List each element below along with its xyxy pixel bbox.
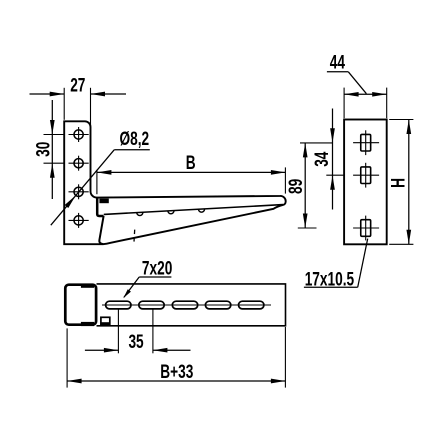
svg-text:17x10.5: 17x10.5 [305,268,354,290]
svg-text:B: B [186,152,196,174]
svg-text:Ø8,2: Ø8,2 [119,128,149,150]
svg-text:34: 34 [311,151,333,167]
svg-text:30: 30 [32,142,54,157]
svg-text:7x20: 7x20 [142,257,172,279]
svg-text:35: 35 [128,331,143,353]
svg-text:B+33: B+33 [160,361,193,383]
svg-text:44: 44 [330,51,346,73]
svg-text:89: 89 [285,179,307,194]
svg-text:27: 27 [70,74,85,96]
svg-text:H: H [387,178,409,188]
